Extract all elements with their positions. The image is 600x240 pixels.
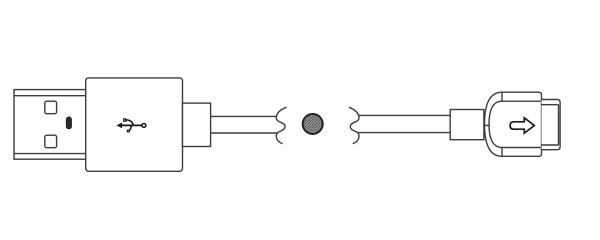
trident lower branch [129, 125, 131, 130]
trident stem [118, 124, 141, 126]
micro USB tip inner bottom line [542, 144, 559, 146]
cable break hatched dot [303, 114, 323, 134]
micro USB arrow icon [510, 118, 534, 133]
shell inner top line [14, 95, 86, 97]
USB A strain relief neck [183, 103, 211, 146]
shell center pill (dark) [66, 117, 71, 129]
trident lower dot [127, 130, 129, 132]
cable break squiggle right [349, 107, 359, 144]
shell contact hole lower square [45, 135, 57, 148]
trident arrowhead [117, 123, 122, 128]
cable right bottom line [357, 132, 450, 134]
micro USB body seam line [484, 124, 490, 126]
shell contact hole upper square [45, 101, 57, 114]
USB trident symbol [117, 119, 146, 132]
trident upper square [124, 119, 126, 121]
trident upper branch [126, 120, 133, 125]
micro USB metal tip outer [542, 100, 561, 150]
cable break squiggle left [276, 107, 286, 144]
USB A plug metal shell outer rectangle [14, 90, 86, 160]
micro USB body outer outline [485, 92, 542, 156]
cable right top line [358, 114, 450, 116]
shell inner bottom line [14, 153, 86, 155]
micro USB tip inner top line [542, 104, 559, 106]
cable left bottom line [211, 132, 279, 134]
micro USB strain relief neck [450, 110, 484, 140]
micro USB body top seam tick [501, 92, 503, 101]
USB A plug body [86, 78, 183, 171]
micro USB tip inner right line [558, 105, 560, 145]
trident right ring [142, 123, 146, 127]
micro USB body bottom seam tick [501, 148, 503, 157]
micro USB body inner outline [489, 101, 542, 147]
cable left top line [211, 115, 277, 117]
